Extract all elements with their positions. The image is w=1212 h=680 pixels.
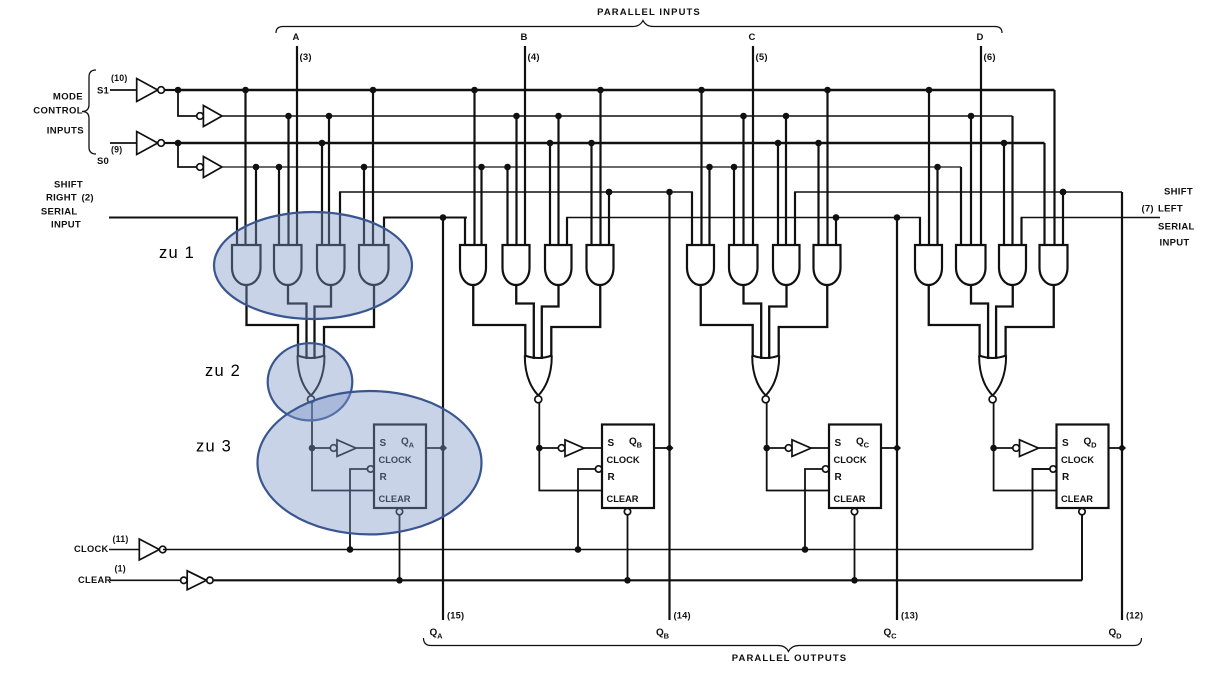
wire input to gate C3 xyxy=(777,143,779,245)
node junction gate C3 input xyxy=(775,140,782,147)
wire clock FF C xyxy=(805,469,822,550)
node QC output junction xyxy=(893,444,901,452)
wire inverter to S input D xyxy=(1039,447,1057,449)
svg-text:(13): (13) xyxy=(901,611,918,621)
svg-text:(1): (1) xyxy=(115,564,126,574)
wire R input D xyxy=(994,448,1057,491)
wire NOR B output down xyxy=(538,403,540,448)
wire input to gate D1 xyxy=(928,90,930,245)
svg-text:B: B xyxy=(637,440,643,449)
wire input to gate A1 xyxy=(255,167,257,245)
node junction gate C4 input xyxy=(815,140,822,147)
wire clock FF A xyxy=(350,469,367,550)
svg-text:(9): (9) xyxy=(111,145,122,155)
wire input to gate D1 xyxy=(919,218,921,246)
wire input to gate B2 xyxy=(506,167,508,245)
wire S1 input xyxy=(110,89,137,91)
wire input to gate A1 xyxy=(244,90,246,245)
node junction gate B4 input xyxy=(606,189,613,196)
wire D3 output to OR xyxy=(996,284,1013,359)
node junction gate A1 input xyxy=(242,87,249,94)
wire clear FF D xyxy=(1081,515,1083,581)
wire r1 from inverter xyxy=(165,89,178,91)
wire C1 output to OR xyxy=(701,284,753,357)
clock bubble FF C xyxy=(822,466,828,472)
svg-text:INPUTS: INPUTS xyxy=(47,126,84,137)
wire input C vertical xyxy=(752,46,754,245)
node QC row to C hold gate xyxy=(833,214,840,221)
svg-text:A: A xyxy=(292,32,299,43)
wire NOR D output down xyxy=(993,403,995,448)
svg-text:D: D xyxy=(1116,631,1122,640)
wire input to gate D4 xyxy=(1062,192,1064,245)
node junction gate A3 input xyxy=(326,113,333,120)
node S0bar junction xyxy=(175,140,182,147)
NOR gate A xyxy=(298,356,325,359)
wire input to gate D4 xyxy=(1043,143,1045,245)
svg-text:zu 1: zu 1 xyxy=(159,244,195,262)
node junction gate A1 input xyxy=(253,164,260,171)
wire A3 output to OR xyxy=(315,284,332,359)
node junction gate A2 input xyxy=(285,113,292,120)
svg-text:PARALLEL INPUTS: PARALLEL INPUTS xyxy=(597,7,701,18)
svg-text:RIGHT: RIGHT xyxy=(46,193,77,204)
svg-text:A: A xyxy=(437,631,443,640)
wire input to gate C4 xyxy=(835,218,837,246)
flip-flop UD box xyxy=(1057,425,1109,509)
wire clock rail xyxy=(163,549,1033,551)
AND gate C1 xyxy=(687,245,714,285)
node junction gate C3 input xyxy=(783,113,790,120)
node junction gate D1 input xyxy=(934,164,941,171)
AND gate D4 xyxy=(1040,245,1068,285)
wire to S inverter D xyxy=(994,447,1013,449)
svg-text:S: S xyxy=(608,438,615,449)
wire to S inverter C xyxy=(767,447,786,449)
wire B3 output to OR xyxy=(542,284,559,359)
NOR gate B xyxy=(525,356,552,359)
wire R input A xyxy=(312,448,374,491)
wire rail S0bar xyxy=(178,142,1045,145)
wire input to gate D3 xyxy=(1020,218,1022,246)
node junction gate D4 input xyxy=(1060,189,1067,196)
svg-text:D: D xyxy=(976,32,983,43)
node junction gate D2 input xyxy=(968,113,975,120)
wire r3 from inverter xyxy=(165,142,178,144)
clear bubble FF D xyxy=(1079,508,1085,514)
inverter U2 S1 second xyxy=(197,113,204,120)
wire input to gate C3 xyxy=(794,192,796,245)
annotation ellipse zu 3 (flip-flop stage A) xyxy=(258,391,482,534)
svg-text:SERIAL: SERIAL xyxy=(1158,222,1195,233)
wire to S inverter B xyxy=(539,447,558,449)
wire input to gate A4 xyxy=(383,218,385,246)
wire clock input xyxy=(109,549,139,551)
wire input to gate A3 xyxy=(328,116,330,245)
node junction gate C4 input xyxy=(833,214,840,221)
wire QC output xyxy=(881,447,897,449)
wire input to gate B4 xyxy=(599,90,601,245)
node QB riser junction xyxy=(666,189,673,196)
AND gate B3 xyxy=(545,245,572,285)
wire A4 output to OR xyxy=(324,284,374,357)
node QD output junction xyxy=(1118,444,1126,452)
svg-text:C: C xyxy=(748,32,755,43)
node junction gate B1 input xyxy=(478,164,485,171)
wire input to gate A2 xyxy=(287,116,289,245)
wire input to gate B4 xyxy=(608,192,610,245)
clear bubble FF C xyxy=(851,508,857,514)
node QA output junction xyxy=(439,444,447,452)
wire clock rail rise to FF D xyxy=(1033,469,1051,550)
annotation ellipse zu 1 (AND gates stage A) xyxy=(214,212,412,319)
svg-text:INPUT: INPUT xyxy=(51,220,81,231)
svg-text:CLOCK: CLOCK xyxy=(1061,455,1094,465)
wire QA riser xyxy=(442,218,444,621)
wire shift right serial input xyxy=(109,217,238,219)
wire rail S1 buffered xyxy=(222,115,1013,117)
wire input to gate D2 xyxy=(960,167,962,245)
node clock rail junction C xyxy=(802,546,809,553)
wire A1 output to OR xyxy=(247,284,299,357)
AND gate C3 xyxy=(773,245,800,285)
svg-text:CLEAR: CLEAR xyxy=(607,494,639,504)
clock bubble FF B xyxy=(595,466,601,472)
svg-text:CLEAR: CLEAR xyxy=(1061,494,1093,504)
wire input to gate B1 xyxy=(480,167,482,245)
svg-text:CLEAR: CLEAR xyxy=(834,494,866,504)
wire to S inverter A xyxy=(312,447,330,449)
inverter S input FF A xyxy=(330,445,337,452)
wire input to gate C3 xyxy=(785,116,787,245)
wire input to gate C4 xyxy=(826,90,828,245)
node S junction D xyxy=(990,445,997,452)
wire input to gate C1 xyxy=(691,192,693,245)
svg-text:(4): (4) xyxy=(528,52,540,63)
wire QD output xyxy=(1109,447,1123,449)
NOR gate D xyxy=(979,356,1006,359)
AND gate B1 xyxy=(460,245,486,285)
wire C3 output to OR xyxy=(769,284,786,359)
wire C4 output to OR xyxy=(779,284,828,357)
svg-text:MODE: MODE xyxy=(53,92,83,103)
svg-text:CONTROL: CONTROL xyxy=(33,106,83,117)
node junction gate B4 input xyxy=(588,140,595,147)
node clock rail junction A xyxy=(347,546,354,553)
clock bubble FF A xyxy=(367,466,373,472)
inverter S input FF C xyxy=(785,445,792,452)
top brace for parallel inputs xyxy=(276,21,1002,34)
node S junction A xyxy=(309,445,316,452)
bottom brace parallel outputs xyxy=(424,638,1142,652)
node junction gate A4 input xyxy=(361,164,368,171)
svg-text:R: R xyxy=(608,472,616,483)
AND gate D1 xyxy=(915,245,942,285)
wire input to gate D3 xyxy=(1011,116,1013,245)
flip-flop UB box xyxy=(602,425,654,509)
node junction gate B4 input xyxy=(597,87,604,94)
node junction gate B3 input xyxy=(555,113,562,120)
wire down to second S0 inverter xyxy=(178,143,197,167)
node junction gate B2 input xyxy=(513,113,520,120)
node junction gate D1 input xyxy=(926,87,933,94)
AND gate D3 xyxy=(999,245,1026,285)
inverter S input FF D xyxy=(1013,445,1020,452)
node junction gate A4 input xyxy=(370,87,377,94)
flip-flop UA box xyxy=(374,425,426,509)
wire input to gate C2 xyxy=(742,116,744,245)
svg-text:(14): (14) xyxy=(674,611,691,621)
wire input to gate B3 xyxy=(566,218,568,246)
wire B4 output to OR xyxy=(551,284,600,357)
svg-text:SHIFT: SHIFT xyxy=(1164,187,1193,198)
wire clock FF B xyxy=(578,469,595,550)
wire clear FF A xyxy=(399,515,401,581)
wire clear rail xyxy=(213,579,1082,581)
svg-text:C: C xyxy=(864,440,870,449)
node junction gate C1 input xyxy=(698,87,705,94)
wire QC riser xyxy=(896,218,898,621)
AND gate A1 xyxy=(232,245,261,285)
svg-text:LEFT: LEFT xyxy=(1158,204,1183,215)
AND gate A4 xyxy=(359,245,389,285)
wire input to gate D1 xyxy=(936,167,938,245)
svg-text:INPUT: INPUT xyxy=(1160,238,1190,249)
wire clear FF C xyxy=(854,515,856,581)
wire R input C xyxy=(767,448,829,491)
wire D4 output to OR xyxy=(1006,284,1054,357)
node QD row to FF D hold gate xyxy=(1060,189,1067,196)
NOR gate C xyxy=(752,356,779,359)
wire down to second S1 inverter xyxy=(178,90,197,116)
wire QB output xyxy=(654,447,670,449)
wire S0 input xyxy=(110,142,137,144)
wire input to gate B1 xyxy=(473,90,475,245)
wire input D vertical xyxy=(980,46,982,245)
inverter U3 S0 first xyxy=(137,132,158,155)
svg-text:R: R xyxy=(835,472,843,483)
AND gate C4 xyxy=(814,245,841,285)
node clear rail junction C xyxy=(851,577,858,584)
svg-text:CLOCK: CLOCK xyxy=(74,544,109,554)
svg-text:(12): (12) xyxy=(1126,611,1143,621)
wire input to gate C4 xyxy=(817,143,819,245)
wire NOR A output down xyxy=(311,403,313,448)
svg-text:S1: S1 xyxy=(97,86,110,97)
svg-text:(3): (3) xyxy=(300,52,312,63)
wire input to gate A3 xyxy=(339,192,341,245)
wire rail S0 buffered xyxy=(222,166,961,168)
wire QA output xyxy=(426,447,443,449)
wire input A vertical xyxy=(296,46,298,245)
wire inverter to S input B xyxy=(584,447,602,449)
AND gate B4 xyxy=(587,245,614,285)
node junction gate C1 input xyxy=(706,164,713,171)
brace mode control xyxy=(82,70,96,154)
inverter U4 S0 second xyxy=(197,164,204,171)
AND gate A2 xyxy=(274,245,302,285)
wire clock FF D xyxy=(1033,469,1050,550)
wire input to gate B4 xyxy=(590,143,592,245)
wire input to gate D2 xyxy=(970,116,972,245)
wire QC feedback row xyxy=(566,217,921,219)
inverter U1 S1 first xyxy=(137,79,158,102)
wire input to gate A1 xyxy=(236,218,238,246)
wire C2 output to OR xyxy=(744,284,762,359)
wire input to gate A4 xyxy=(363,167,365,245)
wire input to gate B1 xyxy=(464,218,466,246)
wire input to gate B2 xyxy=(515,116,517,245)
wire input to gate C1 xyxy=(708,167,710,245)
AND gate D2 xyxy=(956,245,986,285)
wire QD riser xyxy=(1121,192,1123,620)
AND gate B2 xyxy=(503,245,530,285)
svg-text:S: S xyxy=(1062,438,1069,449)
wire input B vertical xyxy=(524,46,526,245)
wire QB feedback row xyxy=(339,191,693,193)
AND gate A3 xyxy=(317,245,345,285)
node QA riser junction xyxy=(440,214,447,221)
wire clear FF B xyxy=(627,515,629,581)
svg-text:PARALLEL OUTPUTS: PARALLEL OUTPUTS xyxy=(732,653,847,664)
svg-text:(10): (10) xyxy=(111,73,127,83)
svg-text:zu 3: zu 3 xyxy=(196,438,232,456)
wire shift left serial input xyxy=(1021,217,1160,219)
node junction gate D3 input xyxy=(1001,140,1008,147)
node junction gate A3 input xyxy=(319,140,326,147)
svg-text:D: D xyxy=(1091,440,1097,449)
wire input to gate A3 xyxy=(321,143,323,245)
wire inverter to S input C xyxy=(811,447,829,449)
annotation ellipse zu 2 (NOR gate stage A) xyxy=(268,343,353,420)
inverter U6 clear xyxy=(181,577,187,583)
wire R input B xyxy=(539,448,602,491)
wire B1 output to OR xyxy=(473,284,525,357)
node junction gate C2 input xyxy=(740,113,747,120)
wire QA feedback row xyxy=(383,217,467,219)
node clear rail junction A xyxy=(396,577,403,584)
node junction gate B1 input xyxy=(471,87,478,94)
node clock rail junction B xyxy=(575,546,582,553)
wire inverter to S input A xyxy=(356,447,374,449)
svg-text:(7): (7) xyxy=(1142,204,1154,215)
svg-text:(11): (11) xyxy=(113,534,129,544)
inverter U5 clock xyxy=(139,539,159,560)
flip-flop UC box xyxy=(829,425,881,509)
wire input to gate B3 xyxy=(549,143,551,245)
svg-text:S: S xyxy=(835,438,842,449)
svg-text:CLOCK: CLOCK xyxy=(607,455,640,465)
svg-text:(6): (6) xyxy=(984,52,996,63)
wire NOR C output down xyxy=(766,403,768,448)
svg-text:B: B xyxy=(520,32,527,43)
node QC riser junction xyxy=(894,214,901,221)
wire input to gate C1 xyxy=(700,90,702,245)
svg-text:SHIFT: SHIFT xyxy=(54,180,83,191)
AND gate C2 xyxy=(729,245,758,285)
node junction gate B3 input xyxy=(547,140,554,147)
node S1bar junction xyxy=(175,87,182,94)
node QB row to FF B hold gate xyxy=(606,189,613,196)
svg-text:CLOCK: CLOCK xyxy=(834,455,867,465)
node S junction B xyxy=(536,445,543,452)
wire input to gate A2 xyxy=(278,167,280,245)
clear bubble FF A xyxy=(396,508,402,514)
svg-text:(2): (2) xyxy=(82,193,94,204)
wire D1 output to OR xyxy=(929,284,980,357)
wire input to gate D4 xyxy=(1053,90,1055,245)
clock bubble FF D xyxy=(1050,466,1056,472)
wire input to gate B3 xyxy=(557,116,559,245)
node junction gate C4 input xyxy=(824,87,831,94)
node QB output junction xyxy=(666,444,674,452)
node junction gate C2 input xyxy=(731,164,738,171)
node S junction C xyxy=(763,445,770,452)
wire clear rail rise to FF D xyxy=(1081,515,1083,581)
svg-text:CLEAR: CLEAR xyxy=(78,575,112,585)
clear bubble FF B xyxy=(624,508,630,514)
wire input to gate D3 xyxy=(1003,143,1005,245)
wire input to gate C2 xyxy=(733,167,735,245)
svg-text:C: C xyxy=(891,631,897,640)
wire clear input xyxy=(110,579,180,581)
svg-text:(5): (5) xyxy=(756,52,768,63)
svg-text:(15): (15) xyxy=(447,611,464,621)
wire QB riser xyxy=(668,192,670,620)
wire QD feedback row xyxy=(794,191,1122,193)
wire A2 output to OR xyxy=(288,284,307,359)
wire B2 output to OR xyxy=(516,284,534,359)
svg-text:R: R xyxy=(1062,472,1070,483)
svg-text:zu 2: zu 2 xyxy=(205,362,241,380)
node clear rail junction B xyxy=(624,577,631,584)
svg-text:B: B xyxy=(664,631,670,640)
svg-text:S0: S0 xyxy=(97,156,109,167)
node junction gate A2 input xyxy=(276,164,283,171)
svg-text:SERIAL: SERIAL xyxy=(41,207,78,218)
wire input to gate A4 xyxy=(372,90,374,245)
wire rail S1bar xyxy=(178,89,1055,92)
inverter S input FF B xyxy=(558,445,565,452)
wire D2 output to OR xyxy=(971,284,988,359)
node junction gate B2 input xyxy=(504,164,511,171)
